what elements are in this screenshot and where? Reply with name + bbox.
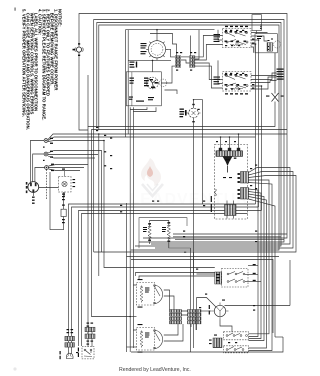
wire band row A [127, 256, 280, 258]
wire frame drop [92, 130, 288, 317]
label terminal block [209, 335, 217, 345]
wire L2 run c [49, 169, 81, 171]
connector P2 [277, 69, 284, 80]
power plug P1 [28, 182, 39, 204]
oven light bulb [66, 353, 73, 358]
wire cabinet frame 4 [99, 25, 279, 250]
wire L1 run c [48, 141, 104, 142]
label fan motor cluster [144, 78, 158, 89]
wire switch risers [251, 33, 277, 211]
wire N run b [48, 154, 98, 156]
oven light plug blocks [65, 336, 75, 347]
wire oven box outline [131, 248, 283, 352]
label inner rows [130, 62, 138, 84]
wire latch motor leads [194, 100, 203, 275]
wire fuse link [39, 187, 59, 189]
oven lamp LA2 [167, 222, 170, 242]
label LA1 [143, 227, 147, 232]
wire oven spine 2 [129, 107, 131, 352]
oven lamp box [139, 218, 187, 249]
door lock switch DLS [222, 269, 249, 288]
wire cabinet frame outer [79, 14, 287, 239]
cooktop box edge [125, 30, 214, 137]
thermal cutout TOD [50, 172, 66, 230]
door latch motor M1 [187, 107, 201, 121]
door lock plug block [215, 272, 222, 284]
notice note block [22, 9, 63, 130]
label TOD [62, 196, 65, 223]
bake relay RY1 [137, 283, 163, 306]
door switch plug blocks [85, 327, 95, 338]
label SU1 [141, 43, 147, 54]
terminal block N [44, 152, 48, 156]
relay block K1 [238, 172, 249, 184]
door switch DS1 [82, 347, 94, 359]
wire bus row 3 [79, 211, 262, 347]
oven light chain labels [67, 329, 74, 333]
gas valve squiggle [215, 189, 217, 196]
terminal block L1 [44, 139, 48, 143]
wire aux links [130, 30, 276, 112]
door switch chain labels [87, 323, 94, 345]
cooling fan motor M2 [212, 303, 229, 320]
wire bus row 4 [82, 214, 248, 347]
relay block K2 [238, 188, 249, 200]
wire band row B [131, 260, 273, 334]
label RY1 [138, 279, 150, 308]
wire drop x104 [104, 141, 215, 268]
wire terminal leads left [30, 141, 46, 200]
label DS1 [78, 348, 79, 358]
wire element to stacks [150, 30, 223, 88]
watermark flame logo [141, 158, 161, 186]
ground labels [26, 182, 28, 193]
terminal block L2 [45, 166, 49, 170]
terminal stack TS2 [188, 310, 202, 324]
wire door lock links [197, 266, 262, 282]
wire cabinet frame 2 [94, 20, 284, 253]
label thermal fuse [266, 96, 284, 97]
wire bus row 1 [69, 204, 256, 336]
wire L2 run b [49, 167, 85, 169]
label RY2 [138, 324, 150, 353]
terminal stack TS1 [170, 310, 182, 324]
stray scan tick [14, 8, 17, 11]
wire igniter feed 2 [229, 137, 231, 149]
label clock [260, 25, 262, 30]
wire label specks terminals [43, 138, 54, 171]
bake igniter funnel [223, 156, 237, 172]
oven sensor coil [225, 201, 237, 219]
connector stack CS1 [175, 56, 180, 68]
wire igniter feed 3 [238, 134, 240, 149]
wire N run c [48, 156, 95, 158]
wire bottom right links [194, 260, 291, 351]
label SW2 [214, 77, 249, 95]
wire L1 run [48, 134, 287, 140]
wire latch run [88, 102, 275, 337]
wire fuse label specks [62, 169, 75, 195]
wire K2 fan [249, 189, 276, 337]
broil element hatched bar [216, 148, 243, 157]
wire color label specks [96, 30, 257, 343]
clock control box [252, 15, 261, 34]
svg-text:5. VERIFY PROPER OPERATION AFT: 5. VERIFY PROPER OPERATION AFTER SERVICI… [22, 9, 27, 117]
label oven light [257, 36, 262, 39]
watermark chevron [142, 184, 163, 196]
wire N run [48, 151, 102, 253]
faint scan dot bottom left [13, 367, 16, 370]
bake igniter dashed box [215, 145, 248, 220]
label door lock [216, 264, 256, 281]
wire light chain [69, 341, 72, 354]
connector stack CS2 [190, 56, 195, 68]
infinite switch SW2 [223, 72, 252, 92]
wire frame stub left [79, 53, 88, 131]
wire oven spine 3 [132, 107, 134, 348]
wire cabinet frame 3 [97, 23, 281, 247]
control board box [126, 72, 161, 106]
wire drop x98 [98, 134, 100, 276]
wire oven spine 1 [126, 203, 128, 352]
label igniter box [211, 177, 232, 212]
wire relay links [127, 285, 197, 347]
power cord entry grommet [75, 47, 83, 52]
door lock switch row 2 [224, 346, 249, 353]
wire fan motor leads [197, 298, 291, 333]
fuse F1 dashed box [59, 171, 72, 197]
surface element SU1 [146, 39, 168, 61]
wire L1 run b [48, 137, 256, 141]
door lock switch row 1 [224, 332, 249, 340]
svg-text:Rendered by LeadVenture, Inc.: Rendered by LeadVenture, Inc. [119, 367, 191, 373]
label LA2 [162, 227, 166, 232]
label latch motor [180, 104, 200, 123]
wire K1 fan [94, 168, 296, 291]
label SW1 [214, 26, 249, 42]
label bulb [60, 351, 79, 359]
wire igniter feed 1 [220, 137, 222, 149]
wire L2 run [49, 165, 89, 167]
oven light assembly box [255, 34, 281, 53]
convection fan motor [147, 77, 167, 89]
wire door switch chain [88, 332, 92, 347]
thermal fuse X1 [272, 53, 279, 102]
wire lamp links [150, 221, 287, 249]
connector P1 pins [268, 39, 274, 51]
infinite switch SW1 [223, 29, 252, 48]
wire bus row 2 [72, 207, 259, 336]
broil relay RY2 [137, 328, 163, 351]
oven lamp LA1 [148, 223, 151, 241]
switch contact specks [225, 31, 248, 86]
label grommet [73, 43, 81, 56]
motor terminal block [213, 338, 222, 348]
label transformer [129, 97, 154, 102]
label fan motor [209, 300, 225, 315]
